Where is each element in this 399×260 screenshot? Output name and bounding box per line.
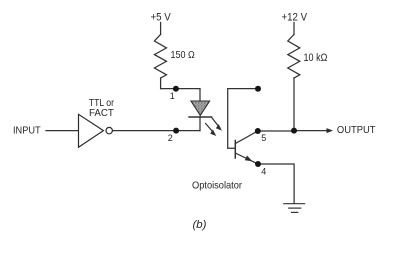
svg-text:1: 1	[170, 91, 175, 101]
svg-text:5: 5	[261, 133, 266, 143]
svg-text:+5 V: +5 V	[151, 11, 172, 23]
svg-text:2: 2	[168, 133, 173, 143]
svg-text:150 Ω: 150 Ω	[171, 49, 195, 61]
svg-text:FACT: FACT	[89, 107, 114, 119]
svg-text:INPUT: INPUT	[13, 125, 41, 137]
svg-text:4: 4	[261, 166, 266, 176]
svg-text:10 kΩ: 10 kΩ	[304, 52, 328, 64]
svg-text:OUTPUT: OUTPUT	[337, 124, 376, 136]
svg-text:+12 V: +12 V	[282, 11, 308, 23]
svg-text:(b): (b)	[193, 219, 207, 231]
svg-text:Optoisolator: Optoisolator	[192, 180, 242, 192]
